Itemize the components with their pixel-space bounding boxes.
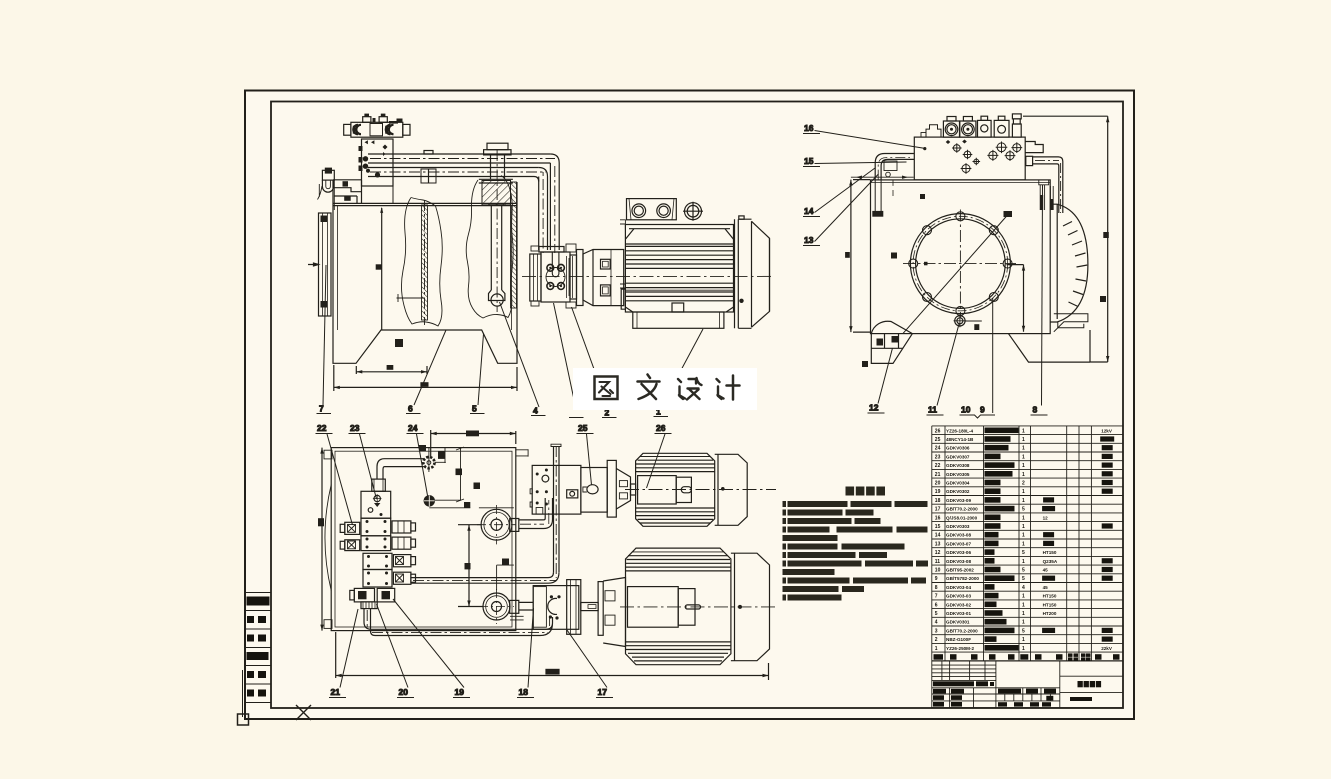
svg-text:17: 17 bbox=[935, 507, 941, 513]
svg-text:1: 1 bbox=[1022, 559, 1025, 565]
svg-text:11: 11 bbox=[935, 559, 941, 565]
svg-text:GDKV0307: GDKV0307 bbox=[946, 454, 970, 459]
leader 2 bbox=[572, 307, 609, 409]
suction flange circles in tank bbox=[477, 505, 516, 624]
leader 14 bbox=[815, 168, 876, 213]
svg-text:1: 1 bbox=[1022, 428, 1025, 434]
svg-text:7: 7 bbox=[935, 594, 938, 600]
leader 5 bbox=[478, 334, 484, 405]
svg-text:12kV: 12kV bbox=[1101, 428, 1113, 433]
svg-text:1: 1 bbox=[1022, 541, 1025, 547]
svg-text:23: 23 bbox=[350, 423, 360, 433]
requirement text lines (dense small print) bbox=[783, 501, 929, 601]
svg-text:23: 23 bbox=[935, 454, 941, 460]
module rows bbox=[361, 518, 391, 536]
svg-text:1: 1 bbox=[1022, 454, 1025, 460]
terminal box bbox=[627, 199, 677, 220]
pump1 suction elbow (up) bbox=[510, 519, 519, 532]
small marks on tank face bbox=[862, 361, 868, 367]
pump 1 (plan) bbox=[530, 460, 636, 517]
svg-text:5: 5 bbox=[1022, 628, 1025, 634]
svg-text:GDKV03-07: GDKV03-07 bbox=[946, 541, 971, 546]
right overall dimension bbox=[1023, 116, 1109, 362]
pump 2 (plan) bbox=[533, 578, 625, 647]
right side valves bbox=[392, 521, 411, 533]
svg-text:15: 15 bbox=[804, 156, 814, 166]
svg-text:19: 19 bbox=[455, 687, 465, 697]
body bbox=[625, 225, 733, 313]
return loop from stack bottom bbox=[364, 609, 546, 636]
svg-text:1: 1 bbox=[1022, 637, 1025, 643]
svg-text:25: 25 bbox=[935, 437, 941, 443]
title 技术要求 bbox=[846, 487, 855, 496]
svg-text:GDKV03-04: GDKV03-04 bbox=[946, 585, 971, 590]
bottom blocks bbox=[354, 588, 374, 602]
leader 21 bbox=[340, 609, 358, 688]
inlet elbow pipe with flange (plan) bbox=[377, 447, 470, 508]
motor behind tank (right side) bbox=[1009, 204, 1091, 362]
svg-text:18: 18 bbox=[519, 687, 529, 697]
svg-text:GDKV03-02: GDKV03-02 bbox=[946, 602, 971, 607]
X mark on bottom border bbox=[296, 705, 311, 720]
leader 11 bbox=[937, 324, 959, 406]
svg-text:19: 19 bbox=[935, 489, 941, 495]
svg-text:5: 5 bbox=[935, 611, 938, 617]
pressure line from stack to vertical pipe bbox=[411, 578, 548, 584]
outer border frame bbox=[245, 91, 1134, 720]
svg-text:6: 6 bbox=[935, 602, 938, 608]
tank shelf / top plate lines bbox=[333, 180, 362, 204]
svg-text:1: 1 bbox=[1022, 489, 1025, 495]
svg-text:13: 13 bbox=[804, 235, 814, 245]
leader 3 bbox=[554, 303, 577, 409]
svg-text:26: 26 bbox=[935, 428, 941, 434]
piping runs (plan) bbox=[364, 444, 561, 635]
svg-text:HT200: HT200 bbox=[1043, 611, 1057, 616]
char 计 bbox=[717, 376, 740, 400]
svg-text:GDKV03-08: GDKV03-08 bbox=[946, 533, 971, 538]
svg-text:13: 13 bbox=[935, 541, 941, 547]
svg-text:5: 5 bbox=[1022, 568, 1025, 574]
leader 18 bbox=[528, 608, 534, 688]
BOM parts list table bbox=[932, 426, 1123, 708]
svg-text:45: 45 bbox=[1043, 585, 1049, 590]
svg-text:YZ26-250M-2: YZ26-250M-2 bbox=[946, 646, 975, 651]
revision strip bottom-left margin bbox=[243, 593, 272, 718]
svg-text:GDKV03-03: GDKV03-03 bbox=[946, 594, 971, 599]
svg-text:GB/T70.2-2000: GB/T70.2-2000 bbox=[946, 628, 978, 633]
svg-text:12: 12 bbox=[1043, 515, 1049, 520]
svg-text:GDKV0301: GDKV0301 bbox=[946, 620, 970, 625]
left side valves bbox=[345, 522, 360, 534]
svg-text:8: 8 bbox=[935, 585, 938, 591]
valve manifold stack (plan) bbox=[340, 479, 415, 609]
svg-text:25: 25 bbox=[578, 423, 588, 433]
leader 17 bbox=[567, 630, 607, 688]
char 设 bbox=[678, 378, 702, 400]
svg-text:YZ26-180L-4: YZ26-180L-4 bbox=[946, 428, 974, 433]
leader 25 bbox=[587, 434, 592, 485]
table grid lines bbox=[931, 426, 933, 661]
pump (side view) bbox=[530, 244, 583, 308]
svg-text:1: 1 bbox=[935, 646, 938, 652]
drain plug bbox=[955, 316, 965, 326]
svg-text:1: 1 bbox=[1022, 515, 1025, 521]
leader 8 bbox=[1042, 185, 1043, 406]
svg-text:22kV: 22kV bbox=[1101, 646, 1113, 651]
svg-text:GDKV03-06: GDKV03-06 bbox=[946, 550, 971, 555]
inner border frame bbox=[271, 102, 1123, 709]
svg-text:1: 1 bbox=[1022, 446, 1025, 452]
table header row blobs bbox=[934, 653, 1120, 661]
level gauge panel left bbox=[308, 213, 331, 316]
svg-text:1: 1 bbox=[1022, 437, 1025, 443]
svg-text:4: 4 bbox=[935, 620, 938, 626]
svg-text:GDKV03-09: GDKV03-09 bbox=[946, 498, 971, 503]
svg-text:Q235A: Q235A bbox=[1043, 559, 1058, 564]
svg-text:6: 6 bbox=[408, 404, 413, 414]
title block text blobs incl. drawing name bbox=[933, 681, 1101, 707]
leader 26 bbox=[647, 434, 666, 488]
svg-text:5: 5 bbox=[1022, 550, 1025, 556]
svg-text:10: 10 bbox=[935, 568, 941, 574]
title block grid bbox=[932, 661, 1123, 708]
inner dimension to circle center bbox=[1007, 265, 1026, 332]
leader 16 bbox=[815, 131, 925, 149]
svg-text:20: 20 bbox=[399, 687, 409, 697]
char 图 bbox=[595, 377, 618, 400]
pipe elbow down to pump bbox=[530, 154, 564, 253]
leader 4 bbox=[500, 302, 540, 407]
leader 15 bbox=[815, 162, 907, 164]
vertical pipe pair bbox=[554, 447, 560, 573]
svg-text:4: 4 bbox=[533, 406, 538, 416]
svg-text:16: 16 bbox=[804, 123, 814, 133]
centerline bbox=[522, 275, 774, 277]
big manhole cover circle with bolts bbox=[903, 210, 1016, 334]
svg-text:1: 1 bbox=[1022, 533, 1025, 539]
svg-text:26: 26 bbox=[656, 423, 666, 433]
svg-text:22: 22 bbox=[935, 463, 941, 469]
svg-text:8: 8 bbox=[1033, 405, 1038, 415]
leader 6 bbox=[414, 330, 446, 405]
svg-text:9: 9 bbox=[980, 405, 985, 415]
corner bracket bottom-left with hatch bbox=[871, 321, 912, 363]
svg-text:GB/T5782-2000: GB/T5782-2000 bbox=[946, 576, 979, 581]
svg-text:2: 2 bbox=[935, 637, 938, 643]
svg-text:GDKV0302: GDKV0302 bbox=[946, 489, 970, 494]
svg-text:5: 5 bbox=[1022, 507, 1025, 513]
leader 12 bbox=[878, 348, 893, 404]
svg-text:20: 20 bbox=[935, 481, 941, 487]
svg-text:1: 1 bbox=[1022, 463, 1025, 469]
tank outline (plan) bbox=[324, 448, 516, 631]
svg-text:GDKV03-08: GDKV03-08 bbox=[946, 559, 971, 564]
svg-text:22: 22 bbox=[317, 423, 327, 433]
eye bolt bbox=[685, 203, 702, 220]
svg-text:12: 12 bbox=[935, 550, 941, 556]
svg-text:24: 24 bbox=[408, 423, 418, 433]
svg-text:1: 1 bbox=[1022, 594, 1025, 600]
svg-text:24: 24 bbox=[935, 446, 941, 452]
svg-text:14: 14 bbox=[804, 206, 814, 216]
svg-text:1: 1 bbox=[1022, 602, 1025, 608]
svg-text:48NCY14-1B: 48NCY14-1B bbox=[946, 437, 974, 442]
svg-text:GDKV0304: GDKV0304 bbox=[946, 481, 970, 486]
svg-text:21: 21 bbox=[935, 472, 941, 478]
tank end face bbox=[871, 180, 1051, 334]
char 文 bbox=[638, 375, 660, 400]
valves on manifold top bbox=[921, 114, 1021, 137]
valve manifold block on tank top bbox=[914, 137, 1025, 180]
svg-text:GB/T95-2002: GB/T95-2002 bbox=[946, 568, 974, 573]
svg-text:NBZ-G100F: NBZ-G100F bbox=[946, 637, 971, 642]
leader 1 bbox=[661, 329, 703, 408]
svg-text:1: 1 bbox=[1022, 498, 1025, 504]
motor 2 (plan) bbox=[620, 548, 778, 665]
svg-text:18: 18 bbox=[935, 498, 941, 504]
pump2 suction stub bbox=[510, 600, 519, 613]
svg-text:3: 3 bbox=[935, 628, 938, 634]
svg-text:1: 1 bbox=[1022, 611, 1025, 617]
pipe run horizontal (double pipes) bbox=[368, 151, 555, 184]
svg-text:HT150: HT150 bbox=[1043, 602, 1057, 607]
svg-text:GDKV0303: GDKV0303 bbox=[946, 524, 970, 529]
svg-text:GDKV03-01: GDKV03-01 bbox=[946, 611, 971, 616]
svg-text:9: 9 bbox=[935, 576, 938, 582]
leader 10 and 9 bbox=[992, 298, 994, 413]
svg-text:Q/JS8.01-2000: Q/JS8.01-2000 bbox=[946, 515, 978, 520]
manifold block bbox=[359, 139, 394, 203]
svg-text:1: 1 bbox=[1022, 620, 1025, 626]
top small stub bbox=[516, 449, 528, 456]
motor 1 (plan) bbox=[625, 453, 776, 526]
parts rows: item no, code, name, qty, material, remark bbox=[935, 428, 1114, 652]
oil tank body with skirt notch bbox=[333, 180, 517, 363]
plan dimensions bbox=[318, 430, 769, 680]
svg-text:HT150: HT150 bbox=[1043, 550, 1057, 555]
watermark white box bbox=[573, 368, 757, 410]
left vertical dimension bbox=[845, 176, 914, 333]
leader 19 bbox=[393, 599, 464, 688]
leader 20 bbox=[377, 604, 409, 688]
svg-text:11: 11 bbox=[928, 405, 937, 415]
svg-text:GDKV0306: GDKV0306 bbox=[946, 446, 970, 451]
feet and base bbox=[621, 289, 733, 312]
svg-text:16: 16 bbox=[935, 515, 941, 521]
svg-text:12: 12 bbox=[869, 403, 879, 413]
left return pipe elbow bbox=[872, 154, 914, 217]
svg-text:7: 7 bbox=[319, 404, 324, 414]
corner centering mark bbox=[238, 714, 249, 725]
leader 23 bbox=[360, 434, 377, 499]
bottom dimension lines bbox=[334, 339, 517, 391]
svg-text:1: 1 bbox=[1022, 472, 1025, 478]
svg-text:GDKV0305: GDKV0305 bbox=[946, 472, 970, 477]
manifold right side attachments and pipe bbox=[1025, 142, 1063, 214]
svg-text:GB/T70.2-2000: GB/T70.2-2000 bbox=[946, 507, 978, 512]
fan cowl bbox=[735, 219, 752, 328]
broken-out section 1 : level tube bbox=[397, 198, 443, 327]
broken-out section 2 : filler & suction strainer bbox=[466, 143, 516, 318]
leader 24 bbox=[417, 434, 428, 496]
svg-text:10: 10 bbox=[961, 405, 971, 415]
svg-text:4: 4 bbox=[1022, 585, 1025, 591]
leader 7 bbox=[323, 265, 326, 405]
svg-text:17: 17 bbox=[598, 687, 608, 697]
svg-text:1: 1 bbox=[1022, 646, 1025, 652]
internal dimension line bbox=[376, 207, 384, 330]
bell housing adapter bbox=[583, 250, 624, 306]
solenoid valve assembly on manifold bbox=[344, 114, 410, 138]
svg-text:GDKV0308: GDKV0308 bbox=[946, 463, 970, 468]
svg-text:5: 5 bbox=[472, 404, 477, 414]
leader 13 bbox=[815, 174, 879, 242]
svg-text:1: 1 bbox=[1022, 524, 1025, 530]
motor (side view) bbox=[522, 199, 774, 329]
return pipe J-hook left bbox=[318, 168, 335, 210]
svg-text:2: 2 bbox=[1022, 481, 1025, 487]
svg-text:45: 45 bbox=[1043, 568, 1049, 573]
svg-text:21: 21 bbox=[331, 687, 341, 697]
svg-text:HT150: HT150 bbox=[1043, 594, 1057, 599]
svg-text:14: 14 bbox=[935, 533, 941, 539]
svg-text:15: 15 bbox=[935, 524, 941, 530]
svg-text:5: 5 bbox=[1022, 576, 1025, 582]
leader 22 bbox=[327, 434, 353, 525]
port markings on manifold face bbox=[946, 140, 1023, 174]
